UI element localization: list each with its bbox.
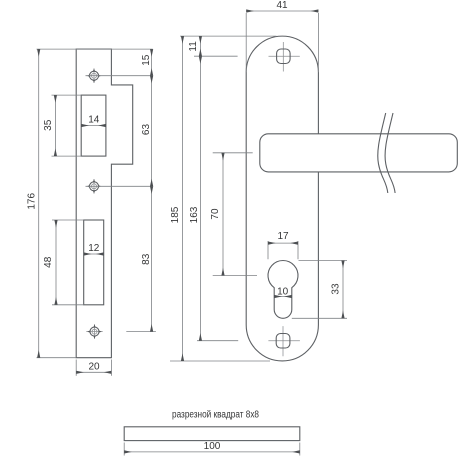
svg-text:12: 12 bbox=[88, 243, 100, 254]
dimension 185 bbox=[170, 36, 183, 361]
svg-text:35: 35 bbox=[43, 119, 54, 131]
svg-text:83: 83 bbox=[141, 253, 152, 265]
extension line bottom hole center bbox=[126, 331, 156, 333]
svg-text:63: 63 bbox=[141, 124, 152, 136]
dimension 12 bbox=[84, 243, 104, 254]
handle plate bottom screw hole bbox=[268, 326, 300, 356]
strike plate upper cutout bbox=[81, 95, 106, 156]
svg-text:100: 100 bbox=[204, 441, 221, 452]
dimension 15 bbox=[141, 49, 152, 76]
break line left bbox=[378, 113, 388, 193]
break line right bbox=[385, 113, 395, 193]
dimension 33 bbox=[292, 261, 347, 319]
dimension 63 bbox=[141, 76, 152, 187]
door handle lever bbox=[260, 134, 458, 172]
svg-text:176: 176 bbox=[27, 193, 38, 210]
svg-text:70: 70 bbox=[210, 208, 221, 220]
extension line cylinder center bbox=[213, 275, 257, 277]
svg-text:48: 48 bbox=[43, 256, 54, 268]
extension line plate top edge bbox=[37, 48, 153, 50]
svg-text:185: 185 bbox=[170, 206, 181, 223]
dimension 163 bbox=[189, 56, 201, 341]
svg-text:разрезной квадрат 8х8: разрезной квадрат 8х8 bbox=[172, 409, 259, 420]
handle plate top screw hole bbox=[269, 42, 300, 72]
label split square 8x8 bbox=[172, 409, 259, 420]
svg-text:11: 11 bbox=[188, 41, 199, 52]
handle plate outline bbox=[246, 36, 318, 361]
extension line handle top hole center bbox=[194, 55, 238, 57]
dimension 11 bbox=[188, 36, 200, 56]
svg-text:41: 41 bbox=[276, 0, 288, 11]
extension line handle plate top bbox=[180, 35, 277, 37]
dimension 100 bbox=[124, 441, 300, 456]
dimension 35 bbox=[43, 95, 81, 156]
dimension 10 bbox=[274, 286, 292, 297]
dimension 20 bbox=[76, 360, 111, 376]
dimension 17 bbox=[268, 231, 298, 259]
extension line middle hole center bbox=[86, 185, 153, 187]
extension line top hole center bbox=[86, 75, 153, 77]
dimension 83 bbox=[141, 186, 152, 331]
svg-text:20: 20 bbox=[88, 361, 100, 372]
strike plate lower cutout bbox=[84, 220, 104, 305]
strike plate outline bbox=[76, 49, 133, 358]
screw hole symbol top bbox=[87, 68, 102, 83]
extension line handle bottom hole center bbox=[197, 340, 238, 342]
svg-text:17: 17 bbox=[277, 231, 289, 242]
dimension 70 bbox=[210, 153, 223, 276]
euro cylinder keyhole bbox=[268, 261, 298, 319]
extension line handle centerline bbox=[213, 152, 253, 154]
svg-text:33: 33 bbox=[331, 283, 342, 295]
screw hole symbol middle bbox=[87, 179, 102, 194]
dimension 14 bbox=[81, 115, 106, 126]
svg-text:163: 163 bbox=[189, 206, 200, 223]
dimension 176 bbox=[27, 49, 39, 358]
extension line handle plate bottom bbox=[170, 360, 270, 362]
screw hole symbol bottom bbox=[86, 324, 102, 339]
spindle bar outline bbox=[124, 427, 300, 441]
svg-text:14: 14 bbox=[88, 115, 100, 126]
svg-text:15: 15 bbox=[141, 54, 152, 66]
dimension 41 bbox=[246, 0, 318, 72]
svg-text:10: 10 bbox=[277, 286, 289, 297]
dimension 48 bbox=[43, 220, 84, 305]
extension line plate bottom left bbox=[37, 357, 77, 359]
